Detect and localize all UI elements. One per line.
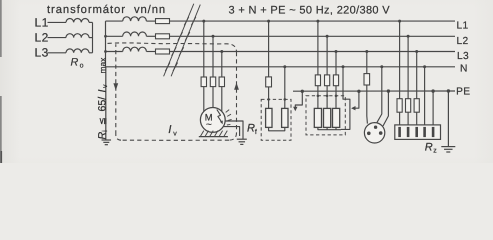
arrow PE into appliance1 xyxy=(293,107,297,111)
enclosure appliance1 dashed box xyxy=(261,99,291,140)
node L3 - boiler drop xyxy=(415,50,418,53)
svg-text:transformátor vn/nn: transformátor vn/nn xyxy=(47,4,166,16)
ground consumer PE earth Rz xyxy=(441,147,455,152)
fuse secondary L1 xyxy=(156,19,170,24)
svg-text:L1: L1 xyxy=(35,15,49,29)
fuse motor L2 xyxy=(210,77,215,87)
node PE - earthing drop xyxy=(447,89,450,92)
svg-text:~: ~ xyxy=(206,120,212,131)
wire Iv loop bottom right corner dashed xyxy=(229,133,237,140)
conductor tick L1 b xyxy=(191,17,196,26)
conductor tick N a xyxy=(165,63,170,72)
node secondary bus - winding 2 xyxy=(104,35,107,38)
label Iv xyxy=(168,124,177,137)
wire L3 to primary winding xyxy=(48,52,67,54)
label N right xyxy=(460,63,468,74)
wire line L3 xyxy=(170,51,456,53)
wire boiler lead 1 xyxy=(399,112,401,125)
line mark long slash 2 xyxy=(171,5,200,77)
wire motor drop 2 upper xyxy=(212,36,214,77)
boiler element bars xyxy=(400,127,434,137)
fuse appliance2 L1 xyxy=(315,75,320,86)
fuse motor L3 xyxy=(219,77,224,87)
node PE - socket tap xyxy=(387,89,390,92)
wire secondary winding 2 to fuse xyxy=(146,35,155,37)
wire line L1 xyxy=(170,20,456,22)
wire boiler PE lead xyxy=(432,91,434,125)
wire appliance2 lead 2 xyxy=(326,86,328,109)
node L3 - socket drop xyxy=(365,50,368,53)
transformer primary winding 2 xyxy=(66,34,89,38)
fuse secondary L3 xyxy=(156,49,170,54)
node L1 - appliance2 drop xyxy=(316,20,319,23)
wire line PE xyxy=(293,90,455,92)
wire bus to secondary winding 3 xyxy=(106,51,123,53)
wire boiler N lead xyxy=(424,67,426,125)
svg-text:v: v xyxy=(173,130,177,137)
svg-text:N: N xyxy=(460,63,468,74)
socket outlet circle xyxy=(364,123,384,143)
svg-text:R: R xyxy=(71,56,79,68)
wire secondary winding 1 to fuse xyxy=(146,20,155,22)
wire bus to secondary winding 1 xyxy=(106,20,123,22)
conductor tick L1 a xyxy=(184,17,189,26)
node PE - appliance1 tap xyxy=(301,90,304,93)
transformer primary winding 3 xyxy=(66,49,89,53)
svg-text:f: f xyxy=(255,128,257,136)
conductor tick L3 a xyxy=(172,47,177,56)
wire Iv loop bottom dashed xyxy=(121,139,229,141)
node appliance2 lead crossings xyxy=(317,95,338,98)
node appliance1 N crossing xyxy=(284,98,287,101)
conductor tick L2 a xyxy=(178,32,183,41)
heating element appliance2 a xyxy=(314,108,321,127)
wire motor drop 1 upper xyxy=(203,21,205,77)
label transformator vn/nn xyxy=(47,4,166,16)
wire appliance1 N lead xyxy=(284,67,286,109)
fuse appliance1 xyxy=(266,77,272,87)
label Ro xyxy=(71,56,84,69)
node PE - appliance2 tap xyxy=(357,90,360,93)
fuse boiler L3 xyxy=(414,99,419,113)
heating element appliance1 b xyxy=(282,108,288,127)
wire Iv loop left dashed xyxy=(115,44,117,134)
node secondary bus - winding 3 xyxy=(104,50,107,53)
line mark long slash 1 xyxy=(164,4,194,77)
wire appliance2 star bar xyxy=(318,127,341,129)
transformer secondary winding 3 xyxy=(123,47,147,51)
wire socket N lead xyxy=(376,67,382,124)
fuse appliance2 L2 xyxy=(325,75,330,86)
motor base hatched xyxy=(199,131,228,137)
heating element appliance2 c xyxy=(333,108,340,127)
wire boiler drop 2 xyxy=(407,36,409,98)
svg-text:L2: L2 xyxy=(35,31,49,45)
wire appliance2 N lead xyxy=(341,67,350,130)
node PE - boiler drop xyxy=(431,89,434,92)
fuse motor L1 xyxy=(201,77,206,87)
socket pin left xyxy=(367,132,371,136)
label L1 right xyxy=(457,21,469,32)
ground motor frame earth xyxy=(237,139,247,144)
wire secondary winding 3 to fuse xyxy=(146,51,155,53)
heating element appliance1 a xyxy=(266,108,272,127)
wire appliance2 drop 1 xyxy=(317,21,319,75)
node L1 - boiler drop xyxy=(398,20,401,23)
wire motor lead 3 xyxy=(221,87,223,112)
heating element appliance2 b xyxy=(324,108,331,127)
wire appliance1 L drop xyxy=(268,21,270,77)
wire L1 to primary winding xyxy=(48,21,67,23)
socket pin right xyxy=(379,131,383,135)
svg-text:L1: L1 xyxy=(457,21,469,32)
wire appliance1 L lead xyxy=(268,87,270,109)
wire Iv loop top dashed xyxy=(108,43,237,52)
wire socket PE lead xyxy=(383,91,388,126)
label Rz xyxy=(425,142,437,155)
wire motor frame to earth upper xyxy=(225,121,243,139)
enclosure appliance2 dashed box xyxy=(306,96,345,135)
label Rf xyxy=(247,123,257,136)
node N - appliance2 drop xyxy=(342,65,345,68)
svg-text:L2: L2 xyxy=(457,36,469,47)
wire PE earthing conductor xyxy=(447,91,449,147)
transformer primary winding 1 xyxy=(66,18,89,22)
svg-text:R: R xyxy=(425,142,433,154)
wire motor frame to earth lower xyxy=(224,127,240,136)
wire boiler drop 3 xyxy=(416,52,418,99)
transformer secondary winding 2 xyxy=(123,32,147,36)
label L3 right xyxy=(457,51,469,62)
node appliance1 lead crossing xyxy=(267,98,270,101)
boiler enclosure box xyxy=(395,125,441,139)
conductor tick N b xyxy=(173,63,178,72)
fuse socket xyxy=(364,74,370,85)
svg-text:z: z xyxy=(433,148,437,155)
node N - appliance1 drop xyxy=(283,65,286,68)
arrow PE into appliance2 xyxy=(351,106,355,110)
wire socket L lead xyxy=(366,85,369,124)
wire motor lead 2 xyxy=(212,87,214,108)
wire boiler lead 2 xyxy=(407,112,409,125)
wire appliance1 bottom link xyxy=(269,127,285,130)
node L3 - motor drop xyxy=(220,50,223,53)
socket pin earth xyxy=(374,126,377,129)
node L1 - motor drop xyxy=(202,20,205,23)
primary star bus xyxy=(92,22,94,52)
fuse boiler L2 xyxy=(406,99,411,113)
label L2 left xyxy=(35,31,49,45)
wire node earthing conductor xyxy=(105,67,107,140)
label L3 left xyxy=(35,46,49,60)
node N - socket drop xyxy=(380,65,383,68)
transformer secondary winding 1 xyxy=(123,17,147,21)
wire socket L drop xyxy=(366,52,368,74)
arrow Iv up on right dashed xyxy=(234,83,239,90)
motor frame hatching xyxy=(226,110,232,125)
svg-text:PE: PE xyxy=(456,87,470,98)
wire appliance2 drop 3 xyxy=(335,52,337,75)
arrow Iv down on left dashed xyxy=(113,83,118,90)
conductor tick L2 b xyxy=(185,32,190,41)
scan edge line left xyxy=(0,0,2,163)
wire line L2 xyxy=(170,35,456,37)
svg-text:L3: L3 xyxy=(35,46,49,60)
wire Iv loop bottom left corner dashed xyxy=(116,135,121,141)
wire Iv loop right dashed xyxy=(236,52,238,133)
wire PE tap to appliance1 xyxy=(295,91,302,108)
wire primary winding 1 to primary bus xyxy=(89,21,93,23)
fuse appliance2 L3 xyxy=(333,75,338,86)
wire L2 to primary winding xyxy=(48,37,67,39)
wire primary winding 3 to primary bus xyxy=(89,52,93,54)
fuse boiler L1 xyxy=(397,99,402,113)
node L2 - motor drop xyxy=(212,35,215,38)
svg-text:3 + N + PE ~ 50 Hz, 220/380 V: 3 + N + PE ~ 50 Hz, 220/380 V xyxy=(229,4,391,16)
conductor tick L3 b xyxy=(179,47,184,56)
label Ri<=65/Iv max rotated xyxy=(96,57,109,140)
motor M circle xyxy=(200,108,225,133)
wire motor drop 3 upper xyxy=(221,52,223,78)
label network 3+N+PE 50Hz 220/380V xyxy=(229,4,391,16)
node L3 - appliance2 drop xyxy=(335,50,338,53)
wire motor lead 1 xyxy=(203,87,205,112)
wire appliance2 drop 2 xyxy=(326,36,328,75)
svg-text:R: R xyxy=(247,123,255,135)
wire PE tap to appliance2 xyxy=(355,91,359,108)
node L2 - appliance2 drop xyxy=(326,35,329,38)
wire boiler lead 3 xyxy=(416,112,418,125)
fault arrow in motor xyxy=(217,109,223,124)
node L1 - appliance1 drop xyxy=(267,20,270,23)
label L1 left xyxy=(35,15,49,29)
wire primary winding 2 to primary bus xyxy=(89,37,93,39)
svg-text:L3: L3 xyxy=(457,51,469,62)
label M 3~ xyxy=(205,111,213,130)
wire boiler drop 1 xyxy=(399,21,401,99)
fuse secondary L2 xyxy=(156,34,170,39)
node L2 - boiler drop xyxy=(407,35,410,38)
secondary star bus xyxy=(105,21,107,67)
node N - boiler drop xyxy=(423,65,426,68)
ground transformer node xyxy=(102,140,112,145)
wire line N xyxy=(106,66,456,68)
wire appliance2 lead 1 xyxy=(317,86,319,109)
wire appliance2 lead 3 xyxy=(335,86,337,109)
svg-text:o: o xyxy=(80,63,84,70)
wire bus to secondary winding 2 xyxy=(106,35,123,37)
label PE right xyxy=(456,87,470,98)
label L2 right xyxy=(457,36,469,47)
